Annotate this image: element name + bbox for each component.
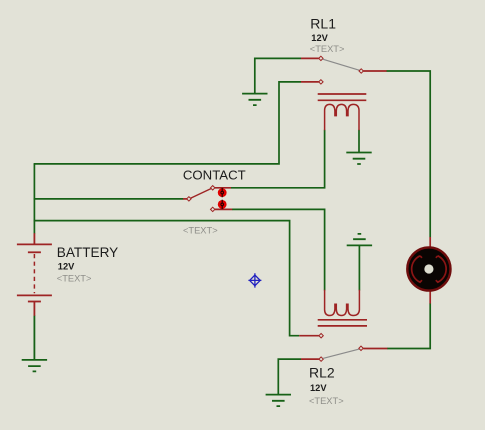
svg-text:<TEXT>: <TEXT>: [57, 273, 92, 283]
svg-text:CONTACT: CONTACT: [183, 168, 246, 183]
RL2 common lead: [363, 348, 387, 350]
svg-text:<TEXT>: <TEXT>: [310, 44, 345, 54]
svg-text:<TEXT>: <TEXT>: [309, 396, 344, 406]
wire RL1 coil right to ground: [358, 130, 360, 153]
ground (RL2 coil, flipped): [347, 234, 372, 246]
wire RL1 common to motor top: [386, 71, 430, 237]
svg-text:RL1: RL1: [310, 16, 336, 32]
CONTACT switch pole lead: [183, 198, 187, 200]
wire top bus to RL1 NC contact: [34, 82, 301, 164]
relay RL1 coil core: [318, 94, 367, 100]
CONTACT touch marker bottom: [218, 200, 227, 209]
svg-text:12V: 12V: [58, 262, 75, 272]
CONTACT top throw lead: [215, 187, 231, 189]
ground (battery): [22, 315, 47, 371]
svg-text:12V: 12V: [311, 33, 328, 43]
RL1 bottom contact node: [319, 80, 323, 84]
wire ground to RL1 top contact: [255, 58, 301, 93]
CONTACT bottom throw lead: [215, 208, 232, 210]
wire RL2 pole to ground: [278, 359, 301, 395]
relay RL2 coil core: [318, 320, 367, 326]
svg-text:BATTERY: BATTERY: [57, 245, 118, 260]
ground (RL1 coil): [346, 153, 371, 165]
CONTACT bottom throw node: [211, 207, 215, 211]
relay RL2 switch: NC contact lead: [299, 335, 319, 337]
wire battery to RL2 NC contact: [34, 221, 300, 336]
CONTACT blade: [191, 188, 212, 198]
svg-text:<TEXT>: <TEXT>: [183, 225, 218, 235]
wire RL2 coil right to flipped ground: [358, 245, 360, 290]
relay RL1 switch: top contact lead: [301, 57, 319, 59]
RL1 blade: [323, 59, 360, 70]
svg-text:RL2: RL2: [309, 365, 335, 381]
motor M1 top lead: [429, 237, 431, 249]
RL2 NC contact node: [319, 334, 323, 338]
motor M1 bottom lead: [429, 290, 431, 304]
RL1 common node: [359, 69, 363, 73]
CONTACT pole node: [187, 197, 191, 201]
ground (RL2 pole): [266, 395, 291, 407]
wire CONTACT top throw to RL1 coil left: [231, 130, 325, 188]
ground (RL1 top contact): [242, 94, 267, 106]
RL2 pole lead: [301, 358, 319, 360]
RL2 blade: [323, 349, 359, 358]
relay RL1 coil winding: [325, 104, 359, 130]
wire motor bottom to RL2 common: [387, 303, 430, 348]
relay RL2 coil winding: [325, 290, 360, 316]
RL2 pole node: [319, 357, 323, 361]
origin marker: [248, 273, 261, 287]
wire battery positive vertical bus: [33, 164, 35, 234]
RL1 top contact node: [319, 56, 323, 60]
wire battery to CONTACT pole: [34, 198, 184, 200]
motor M1 body: [407, 247, 450, 290]
RL1 bottom contact lead: [301, 81, 319, 83]
RL2 common node: [359, 346, 363, 350]
svg-text:12V: 12V: [310, 383, 327, 393]
CONTACT touch marker top: [218, 188, 227, 197]
CONTACT top throw node: [211, 186, 215, 190]
RL1 common lead: [363, 70, 386, 72]
wire CONTACT bottom throw to RL2 coil left: [232, 209, 325, 290]
battery BT1 plates and leads: [17, 233, 52, 316]
